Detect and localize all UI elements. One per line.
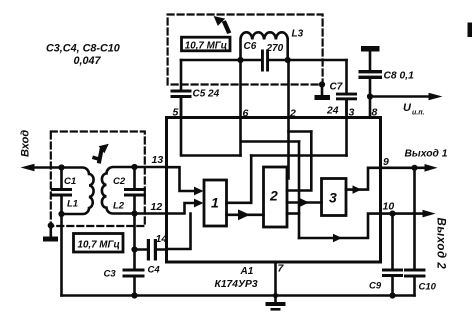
svg-text:Вход: Вход xyxy=(20,130,32,157)
wire C4 line to pin 14 xyxy=(135,248,167,251)
node dot tank2 top xyxy=(131,164,137,170)
capacitor C4 plates xyxy=(147,239,150,261)
capacitor C2 tank branch xyxy=(133,167,136,214)
tuning arrow top box xyxy=(222,20,232,34)
svg-text:2: 2 xyxy=(269,188,278,204)
dashed shield box top xyxy=(168,15,323,85)
capacitor C8 plates xyxy=(359,70,383,73)
wire supply vertical pin 8 xyxy=(369,52,372,118)
svg-text:С4: С4 xyxy=(148,265,161,276)
svg-text:С5 24: С5 24 xyxy=(193,89,220,100)
capacitor C6 plates xyxy=(261,50,264,72)
wire tank2 to pin 13 xyxy=(135,166,167,169)
svg-text:10,7 МГц: 10,7 МГц xyxy=(78,240,120,251)
svg-text:12: 12 xyxy=(151,201,163,213)
svg-text:Выход 1: Выход 1 xyxy=(405,149,448,160)
wire block2 to block3 xyxy=(287,201,322,204)
svg-text:С3: С3 xyxy=(104,269,117,280)
node dot C4 branch xyxy=(131,246,137,252)
node dot input/tank1 top xyxy=(58,164,64,170)
svg-text:1: 1 xyxy=(211,195,219,211)
svg-text:10: 10 xyxy=(383,201,395,213)
node dot output2 xyxy=(389,211,395,217)
wire pin3 internal xyxy=(345,100,348,156)
capacitor C10 plates xyxy=(404,269,426,272)
capacitor C1 tank branch xyxy=(60,168,63,215)
wire output 1 xyxy=(381,167,430,170)
capacitor C9 line xyxy=(391,214,394,296)
svg-text:L3: L3 xyxy=(292,29,304,40)
wire top bus xyxy=(181,59,347,62)
svg-text:3: 3 xyxy=(329,190,337,206)
ground bar top C8 xyxy=(361,46,380,52)
svg-text:L1: L1 xyxy=(67,199,78,210)
svg-text:0,047: 0,047 xyxy=(74,55,102,67)
svg-text:3: 3 xyxy=(349,107,355,119)
svg-text:270: 270 xyxy=(266,43,284,54)
capacitor C2 plates xyxy=(124,188,146,191)
arrowhead into block1 bottom xyxy=(194,199,204,208)
arrowhead block2 to block3 xyxy=(300,198,310,207)
wire pin7 stub xyxy=(274,262,277,302)
wire input line xyxy=(32,166,62,169)
svg-text:К174УР3: К174УР3 xyxy=(215,279,258,290)
ground bar shield1 xyxy=(43,237,58,242)
node dot rail C9 xyxy=(389,292,395,298)
arrowhead into block1 top xyxy=(194,187,204,196)
svg-text:U: U xyxy=(403,102,412,114)
wire supply arrow line xyxy=(370,95,433,98)
node dot output1 xyxy=(411,165,417,171)
svg-text:С8 0,1: С8 0,1 xyxy=(384,71,415,82)
ground pin 7 xyxy=(266,302,286,306)
node dot rail C3 xyxy=(131,292,137,298)
svg-text:А1: А1 xyxy=(240,266,254,277)
svg-text:С3,С4, С8-С10: С3,С4, С8-С10 xyxy=(46,43,120,55)
block 2 xyxy=(264,167,288,227)
wire output 2 xyxy=(381,212,428,215)
node dot shield1 ground xyxy=(48,222,54,228)
tuning arrow left box xyxy=(97,148,104,164)
wire bottom rail xyxy=(62,294,415,297)
svg-text:и.п.: и.п. xyxy=(412,110,424,117)
node dot tank1 bottom xyxy=(58,211,64,217)
svg-text:6: 6 xyxy=(243,108,249,120)
wire pin2 internal xyxy=(287,60,289,179)
svg-text:7: 7 xyxy=(278,263,285,275)
inductor L1 loop xyxy=(62,168,94,215)
ground bar shield2 xyxy=(315,95,331,100)
block 3 xyxy=(322,179,347,216)
wire block3 output to pin 9 xyxy=(346,168,381,190)
arrowhead lower path xyxy=(333,234,342,242)
svg-text:14: 14 xyxy=(156,233,168,245)
block 1 xyxy=(204,180,227,226)
arrowhead block3 output xyxy=(353,185,362,193)
wire shield2 ground stub xyxy=(321,85,324,96)
node dot rail pin7 xyxy=(273,293,278,298)
arrowhead block1 to block2 xyxy=(238,209,250,220)
wire left rail down xyxy=(60,214,63,296)
capacitor C5 line xyxy=(180,60,183,118)
wire tank2 to pin 12 xyxy=(135,212,167,215)
svg-text:24: 24 xyxy=(326,106,339,117)
inductor L3 xyxy=(241,32,288,60)
node dot L3 left xyxy=(237,57,243,63)
wire pin5 internal xyxy=(181,98,241,156)
arrowhead supply xyxy=(429,93,443,101)
wire vertical from pin6 branch to lower path xyxy=(298,142,301,239)
svg-text:С2: С2 xyxy=(113,176,126,187)
arrowhead output1 xyxy=(425,164,438,172)
svg-text:Выход 2: Выход 2 xyxy=(435,218,447,270)
svg-text:С9: С9 xyxy=(369,281,382,292)
capacitor C5 plates xyxy=(171,90,192,93)
svg-text:9: 9 xyxy=(383,156,389,168)
wire lower path to pin 10 xyxy=(299,214,381,238)
capacitor C7 plates xyxy=(336,93,357,96)
svg-text:5: 5 xyxy=(173,107,179,119)
svg-text:8: 8 xyxy=(372,107,378,119)
IC A1 К174УР3 body xyxy=(167,118,381,263)
wire pin14 internal riser xyxy=(167,214,191,250)
capacitor C7 line pin 3 xyxy=(345,60,348,118)
svg-text:С7: С7 xyxy=(330,82,343,93)
svg-text:10,7 МГц: 10,7 МГц xyxy=(185,41,227,52)
node dot shield2 ground xyxy=(319,81,325,87)
svg-text:13: 13 xyxy=(152,154,164,166)
svg-text:С6: С6 xyxy=(244,41,257,52)
label box 10,7 MHz left xyxy=(74,234,124,253)
wire block1 to block2 xyxy=(227,214,264,217)
wire V_b xyxy=(287,132,311,191)
svg-text:L2: L2 xyxy=(113,201,125,212)
inductor L2 loop xyxy=(102,167,135,214)
arrowhead input (left) xyxy=(21,164,35,172)
svg-text:С1: С1 xyxy=(64,176,76,187)
capacitor C10 line xyxy=(413,168,416,296)
dashed shield box left xyxy=(51,132,145,227)
wire block1 upper output riser xyxy=(227,156,252,203)
wire pin12 internal to block 1 xyxy=(167,203,198,214)
scan artifact right edge xyxy=(468,23,472,38)
label box 10,7 MHz top xyxy=(182,37,231,51)
node dot L3 right xyxy=(285,57,291,63)
wire tank2 down through C3 to rail xyxy=(133,214,136,296)
capacitor C1 plates xyxy=(51,188,72,191)
wire pin13 internal to block 1 xyxy=(167,167,198,191)
svg-text:С10: С10 xyxy=(419,282,437,293)
wire block2 stub to lower path xyxy=(287,212,299,215)
node dot supply xyxy=(367,93,373,99)
arrowhead output2 xyxy=(423,210,436,218)
svg-text:2: 2 xyxy=(289,108,296,120)
wire H_b pins 2-3 net xyxy=(251,154,346,157)
wire shield1 ground stub xyxy=(49,226,52,237)
capacitor C3 plates xyxy=(123,269,145,272)
wire pin6 internal xyxy=(241,60,300,156)
capacitor C9 plates xyxy=(382,269,403,272)
node dot tank2 bottom xyxy=(131,210,137,216)
wire H_a xyxy=(289,130,312,133)
